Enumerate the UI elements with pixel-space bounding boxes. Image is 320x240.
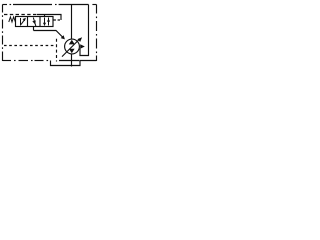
pump triangle right: [80, 44, 85, 49]
right box arrows: [43, 18, 50, 26]
pilot line solid to right corner: [37, 15, 61, 21]
actuator arrowhead: [61, 35, 65, 39]
pump right outlet elbow: [80, 5, 89, 56]
valve top port tick: [44, 15, 46, 17]
control line to pump actuator: [34, 31, 63, 38]
enclosure border top (dash-dot): [3, 4, 97, 6]
pilot line dashed (left): [4, 14, 37, 16]
drain dashed line y=45.5: [4, 45, 57, 47]
enclosure border right (dash-dot): [96, 5, 98, 62]
left box arrow: [21, 18, 26, 25]
pump top supply line: [71, 5, 73, 40]
enclosure border bottom (dash-dot): [3, 60, 97, 62]
enclosure border left (dash-dot): [2, 5, 4, 62]
variable displacement arrow: [62, 40, 79, 57]
pump outlet triangle top: [69, 40, 75, 45]
variable arrow head: [77, 37, 82, 42]
border step notch around pump bottom: [51, 61, 81, 66]
border dash under pump: [59, 60, 80, 62]
valve V1 body: [16, 17, 54, 27]
drain dashed vertical x=56.5: [56, 39, 58, 62]
valve divider 1: [27, 17, 29, 27]
left box port line: [20, 18, 22, 26]
middle box slanted arrow (down): [32, 18, 36, 27]
pilot dashed into valve right end: [54, 19, 62, 21]
pump bottom drain line: [71, 54, 73, 67]
spring (left end of valve): [9, 17, 16, 22]
pump triangle bottom: [69, 49, 75, 54]
pump P1 circle: [65, 39, 80, 54]
valve divider 2: [39, 17, 41, 27]
valve bottom port: [33, 27, 35, 31]
